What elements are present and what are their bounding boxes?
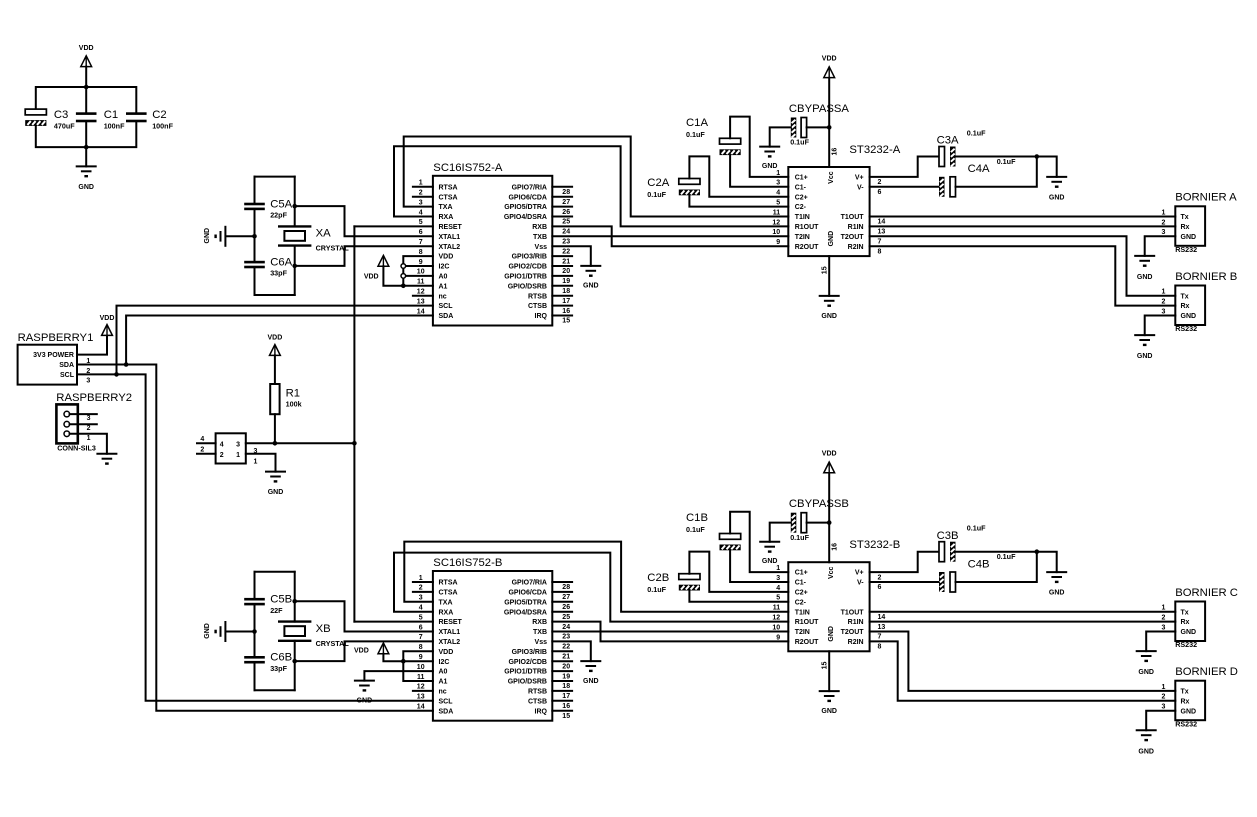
power flag VDD (ST3232-B) [824,462,835,473]
pin 28 stub GPIO7/RIA SC16IS752-A [552,186,572,188]
svg-text:28: 28 [562,189,570,196]
svg-text:0.1uF: 0.1uF [686,130,705,139]
svg-text:470uF: 470uF [54,121,75,130]
wire C4A up to C3A net [956,157,1037,187]
svg-text:C4A: C4A [968,163,990,175]
wire C2A to C2- [689,195,788,206]
svg-text:15: 15 [821,662,828,670]
svg-text:BORNIER B: BORNIER B [1175,271,1237,283]
wire TXA-A to T1IN [404,137,789,217]
svg-text:A1: A1 [439,679,448,686]
svg-text:2: 2 [87,425,91,432]
svg-text:Tx: Tx [1181,609,1189,616]
svg-text:9: 9 [419,259,423,266]
wire VDD to I2C U-B [383,654,403,662]
svg-text:RASPBERRY1: RASPBERRY1 [18,332,94,344]
ground (BORNIER C) [1136,650,1157,652]
capacitor C3A [939,147,945,167]
svg-text:CBYPASSB: CBYPASSB [789,498,849,510]
capacitor C1A [720,138,741,144]
svg-text:GPIO7/RIA: GPIO7/RIA [512,580,547,587]
pin stub RASPBERRY2 3 [70,413,97,415]
wire RXB-B to R2OUT [552,622,788,642]
svg-text:0.1uF: 0.1uF [647,585,666,594]
svg-text:GND: GND [821,313,837,320]
svg-text:C6A: C6A [270,256,292,268]
svg-text:GND: GND [1181,708,1197,715]
pin 2 stub J1 [197,453,216,455]
svg-text:2: 2 [878,574,882,581]
svg-text:GND: GND [1181,629,1197,636]
svg-text:C3B: C3B [937,530,959,542]
wire net SCL RASPBERRY1 to SC16IS752-B [77,374,433,700]
svg-text:26: 26 [562,209,570,216]
pin 25 stub GPIO4/DSRA SC16IS752-A [552,216,572,218]
capacitor C1B [720,534,741,540]
svg-text:I2C: I2C [439,264,450,271]
svg-text:14: 14 [878,219,886,226]
power flag VDD (ST3232-A) [824,67,835,78]
svg-text:20: 20 [562,663,570,670]
svg-text:25: 25 [562,614,570,621]
capacitor C3 [25,109,46,115]
ground (C3A/C4A) [1046,176,1067,178]
svg-text:IRQ: IRQ [535,708,548,715]
junction R1 bottom [273,441,278,446]
wire to XTAL1 A [295,206,433,236]
svg-text:RASPBERRY2: RASPBERRY2 [56,392,132,404]
svg-text:nc: nc [439,293,447,300]
pin 9 stub I2C U-B [403,660,433,662]
wire GND pin15 ST3232-A [828,256,830,296]
svg-text:C2+: C2+ [795,194,808,201]
capacitor C4B [939,572,945,592]
svg-text:100k: 100k [286,400,302,409]
capacitor C2 [126,112,147,115]
svg-text:13: 13 [417,694,425,701]
wire Vcc pin16 ST3232-B to VDD [828,473,830,563]
wire RXB-A to R2OUT [552,226,788,246]
svg-text:33pF: 33pF [270,664,287,673]
wire VDD flag to top rail [85,67,87,87]
svg-text:GPIO2/CDB: GPIO2/CDB [508,264,547,271]
pin 18 stub GPIO/DSRB SC16IS752-A [552,285,572,287]
junction SDA [124,362,129,367]
svg-text:6: 6 [419,624,423,631]
ground (crystal B) [224,621,226,642]
wire TXB-B to T2IN [552,631,788,633]
svg-text:Tx: Tx [1181,293,1189,300]
svg-text:R2OUT: R2OUT [795,639,819,646]
wire V- to C4B [870,581,939,583]
wire crystal loop left top B [254,572,256,599]
svg-text:R2IN: R2IN [848,639,864,646]
svg-text:Tx: Tx [1181,214,1189,221]
svg-text:CTSA: CTSA [439,590,458,597]
svg-text:C2-: C2- [795,204,807,211]
pin 1 stub RTSA SC16IS752-A [413,186,433,188]
connector RASPBERRY1 [18,345,77,385]
svg-text:CTSB: CTSB [528,698,547,705]
svg-text:A0: A0 [439,669,448,676]
svg-text:GND: GND [204,228,211,244]
svg-text:BORNIER C: BORNIER C [1175,587,1238,599]
wire crystal loop top rail B [255,571,295,573]
svg-text:Vss: Vss [535,244,548,251]
svg-text:13: 13 [878,624,886,631]
pin 20 stub GPIO2/CDB SC16IS752-A [552,265,572,267]
svg-text:6: 6 [878,189,882,196]
wire net RESET vertical [353,226,355,621]
resistor R1 [270,384,279,414]
svg-text:100nF: 100nF [104,121,125,130]
wire A0 U-B to GND [364,671,433,681]
svg-text:18: 18 [562,683,570,690]
svg-text:BORNIER D: BORNIER D [1175,666,1238,678]
svg-text:14: 14 [417,704,425,711]
svg-text:12: 12 [417,289,425,296]
svg-text:RS232: RS232 [1175,719,1197,728]
wire net SCL to SC16IS752-A [117,306,433,375]
wire to XTAL1 B [295,601,433,631]
capacitor CBYPASSA [791,118,797,138]
svg-text:SCL: SCL [60,372,75,379]
pin 19 stub GPIO1/DTRB SC16IS752-B [552,670,572,672]
svg-text:5: 5 [419,219,423,226]
junction XTAL1 tee B [292,599,297,604]
svg-text:RTSA: RTSA [439,580,458,587]
svg-text:19: 19 [562,673,570,680]
wire net SDA to SC16IS752-A [126,316,433,365]
wire C4B up to C3B net [956,552,1037,582]
svg-text:TXB: TXB [533,234,547,241]
svg-text:28: 28 [562,584,570,591]
connector BORNIER D [1175,681,1205,721]
svg-text:C3A: C3A [937,135,959,147]
svg-text:7: 7 [419,634,423,641]
svg-text:GND: GND [78,184,94,191]
svg-text:16: 16 [832,543,839,551]
svg-text:Rx: Rx [1181,698,1190,705]
svg-text:9: 9 [419,654,423,661]
svg-text:C2: C2 [152,109,166,121]
svg-text:3: 3 [1162,229,1166,236]
svg-text:2: 2 [220,452,224,459]
wire bottom rail C3-C1-C2 [36,122,137,147]
svg-text:16: 16 [562,703,570,710]
wire T1OUT-A to BORNIER A Tx [870,216,1176,218]
svg-text:33pF: 33pF [270,269,287,278]
svg-text:CTSB: CTSB [528,303,547,310]
svg-text:GND: GND [1138,669,1154,676]
svg-text:VDD: VDD [79,45,94,52]
capacitor C1 [76,112,97,115]
svg-text:13: 13 [878,229,886,236]
svg-text:2: 2 [419,190,423,197]
pin 16 stub CTSB SC16IS752-A [552,305,572,307]
pin circle RASPBERRY2 1 [64,431,70,437]
wire C1A to C1+ [730,117,788,177]
svg-text:8: 8 [419,249,423,256]
pin 27 stub GPIO6/CDA SC16IS752-B [552,591,572,593]
svg-text:GND: GND [1138,748,1154,755]
wire CBYPASSB to GND [770,523,791,542]
svg-text:4: 4 [776,190,780,197]
svg-text:R2IN: R2IN [848,244,864,251]
svg-text:VDD: VDD [354,647,369,654]
svg-text:C5A: C5A [270,198,292,210]
svg-text:XTAL1: XTAL1 [439,629,461,636]
svg-text:RXB: RXB [532,224,547,231]
junction A1 U-A [401,284,406,289]
ground (C3B/C4B) [1046,571,1067,573]
wire CBYPASSA to GND [770,127,791,146]
svg-text:BORNIER A: BORNIER A [1175,192,1237,204]
wire TXB-A to T2IN [552,235,788,237]
svg-text:3V3 POWER: 3V3 POWER [33,352,74,359]
svg-text:GND: GND [821,708,837,715]
svg-text:ST3232-A: ST3232-A [849,144,900,156]
wire R1IN-A to BORNIER A Rx [870,225,1176,227]
wire R1IN-B to BORNIER C Rx [870,621,1176,623]
svg-text:SCL: SCL [439,303,454,310]
svg-text:A0: A0 [439,274,448,281]
svg-text:21: 21 [562,258,570,265]
svg-text:1: 1 [419,180,423,187]
junction crystal GND B [252,629,257,634]
svg-text:3: 3 [776,180,780,187]
svg-text:18: 18 [562,288,570,295]
ground (cap bank) [76,165,97,167]
svg-text:0.1uF: 0.1uF [967,128,986,137]
wire crystal GND tee B [226,631,255,633]
wire CBYPASSA to VDD rail [807,126,830,128]
wire RXA-B to R1OUT [394,553,788,622]
connector BORNIER A [1175,206,1205,246]
svg-text:22: 22 [562,644,570,651]
svg-text:25: 25 [562,219,570,226]
svg-text:T1OUT: T1OUT [841,609,865,616]
svg-text:0.1uF: 0.1uF [967,524,986,533]
svg-text:GPIO5/DTRA: GPIO5/DTRA [504,204,547,211]
svg-text:GPIO6/CDA: GPIO6/CDA [508,590,547,597]
svg-text:ST3232-B: ST3232-B [849,539,900,551]
junction C4B tee [1035,549,1040,554]
IC UA SC16IS752-A [433,176,552,326]
wire RASPBERRY1 3V3 to VDD [77,336,107,355]
svg-text:12: 12 [772,219,780,226]
svg-text:GND: GND [1181,234,1197,241]
pin 21 stub GPIO3/RIB SC16IS752-B [552,650,572,652]
svg-text:SC16IS752-A: SC16IS752-A [433,162,503,174]
svg-text:5: 5 [419,614,423,621]
IC UB SC16IS752-B [433,571,552,721]
wire crystal loop left top A [254,177,256,204]
svg-text:VDD: VDD [439,254,454,261]
svg-text:RESET: RESET [439,224,463,231]
svg-text:5: 5 [776,595,780,602]
svg-text:2: 2 [1162,615,1166,622]
pin 27 stub GPIO6/CDA SC16IS752-A [552,196,572,198]
svg-text:27: 27 [562,199,570,206]
wire C1 bottom leg [85,122,87,147]
svg-text:11: 11 [417,279,425,286]
svg-text:7: 7 [878,634,882,641]
junction XTAL1 tee A [292,204,297,209]
wire C1 top leg [85,87,87,112]
wire crystal top leg A [294,177,296,227]
svg-text:4: 4 [419,605,423,612]
svg-text:GPIO/DSRB: GPIO/DSRB [508,283,547,290]
pin circle RASPBERRY2 2 [64,421,70,427]
svg-text:T1IN: T1IN [795,214,810,221]
svg-text:XA: XA [316,228,332,240]
pin 1 stub RTSA SC16IS752-B [413,581,433,583]
ground (pin15 ST3232-A) [819,295,840,297]
svg-text:VDD: VDD [822,55,837,62]
svg-text:GND: GND [762,558,778,565]
svg-text:A1: A1 [439,283,448,290]
crystal XA [279,225,310,227]
svg-text:nc: nc [439,689,447,696]
svg-text:VDD: VDD [268,335,283,342]
pin 9 stub I2C U-A [403,265,433,267]
svg-text:RXB: RXB [532,619,547,626]
svg-text:11: 11 [417,674,425,681]
no-connect circle A0 U-A [401,274,406,279]
wire crystal GND tee A [226,235,255,237]
svg-text:24: 24 [562,624,570,631]
svg-text:17: 17 [562,298,570,305]
power flag VDD (R1) [270,345,281,356]
svg-text:VDD: VDD [100,315,115,322]
svg-text:6: 6 [878,584,882,591]
junction VDD rail B [827,520,832,525]
svg-text:GPIO4/DSRA: GPIO4/DSRA [504,214,547,221]
capacitor C3B [939,542,945,562]
pin 2 stub CTSA SC16IS752-A [413,196,433,198]
svg-text:22: 22 [562,248,570,255]
svg-text:GND: GND [1137,274,1153,281]
svg-text:T2IN: T2IN [795,234,810,241]
svg-text:C2+: C2+ [795,590,808,597]
svg-text:CTSA: CTSA [439,194,458,201]
capacitor C2A [679,179,700,185]
wire T1OUT-B to BORNIER C Tx [870,611,1176,613]
connector RASPBERRY2 [56,404,77,443]
connector BORNIER C [1175,602,1205,642]
svg-text:R1IN: R1IN [848,224,864,231]
wire C2B to C2- [689,591,788,602]
wire Vcc pin16 ST3232-A to VDD [828,77,830,167]
power flag VDD (U-A pins) [378,255,389,266]
wire CBYPASSB to VDD rail [807,522,830,524]
wire J1 pin3 to reset net [246,442,355,444]
wire J1 pin1 to GND [246,454,276,472]
svg-text:2: 2 [878,179,882,186]
pin 4 stub J1 [197,442,216,444]
pin 15 stub IRQ SC16IS752-B [552,710,572,712]
svg-text:22F: 22F [270,606,283,615]
svg-text:CBYPASSA: CBYPASSA [789,103,850,115]
svg-text:RTSA: RTSA [439,184,458,191]
svg-text:XTAL2: XTAL2 [439,639,461,646]
svg-text:0.1uF: 0.1uF [997,157,1016,166]
svg-text:4: 4 [419,209,423,216]
svg-text:13: 13 [417,298,425,305]
svg-text:C6B: C6B [270,652,292,664]
wire to XTAL2 A [295,246,433,266]
pin 26 stub GPIO5/DTRA SC16IS752-A [552,206,572,208]
svg-text:SDA: SDA [439,313,454,320]
pin 12 stub nc SC16IS752-B [413,690,433,692]
svg-text:0.1uF: 0.1uF [790,533,809,542]
svg-text:V+: V+ [855,175,864,182]
wire crystal bottom leg B [294,641,296,690]
wire C3B to GND [956,552,1057,572]
wire C1B to C1+ [730,512,788,572]
svg-text:C1+: C1+ [795,570,808,577]
svg-text:3: 3 [776,575,780,582]
IC ST3232-A [788,167,869,256]
pin 16 stub CTSB SC16IS752-B [552,700,572,702]
pin 18 stub GPIO/DSRB SC16IS752-B [552,680,572,682]
wire RASPBERRY2 pin1 to GND [70,434,107,454]
svg-text:SDA: SDA [59,362,74,369]
svg-text:T2OUT: T2OUT [841,234,865,241]
svg-text:3: 3 [86,378,90,385]
svg-text:1: 1 [1162,605,1166,612]
svg-text:GND: GND [762,163,778,170]
svg-text:27: 27 [562,594,570,601]
svg-text:C2A: C2A [647,177,669,189]
svg-text:26: 26 [562,604,570,611]
wire crystal loop bottom rail B [255,689,295,691]
capacitor C5A [244,203,265,206]
svg-text:9: 9 [776,239,780,246]
svg-text:4: 4 [200,436,204,443]
IC ST3232-B [788,562,869,651]
pin circle RASPBERRY2 3 [64,411,70,417]
svg-text:14: 14 [417,308,425,315]
svg-text:GND: GND [828,626,835,642]
wire V+ to C3B [870,552,939,572]
ground (Vss A) [580,265,601,267]
svg-text:GPIO3/RIB: GPIO3/RIB [512,254,547,261]
svg-text:SC16IS752-B: SC16IS752-B [433,557,502,569]
svg-text:10: 10 [417,664,425,671]
svg-text:T1OUT: T1OUT [841,214,865,221]
ground (CBYPASSB) [759,541,780,543]
junction I2C U-B [401,659,406,664]
connector BORNIER B [1175,286,1205,326]
ground (pin15 ST3232-B) [819,690,840,692]
svg-text:2: 2 [419,585,423,592]
svg-text:20: 20 [562,268,570,275]
svg-text:4: 4 [220,441,224,448]
svg-text:Vss: Vss [535,639,548,646]
power flag VDD (cap bank) [81,56,92,67]
wire Vss-A to GND [552,246,591,266]
svg-text:XB: XB [316,623,331,635]
wire C1A to C1- [730,155,788,187]
svg-text:RS232: RS232 [1175,640,1197,649]
svg-text:3: 3 [1162,704,1166,711]
svg-text:24: 24 [562,229,570,236]
svg-text:16: 16 [562,308,570,315]
junction XTAL2 tee B [292,659,297,664]
svg-text:GPIO/DSRB: GPIO/DSRB [508,679,547,686]
